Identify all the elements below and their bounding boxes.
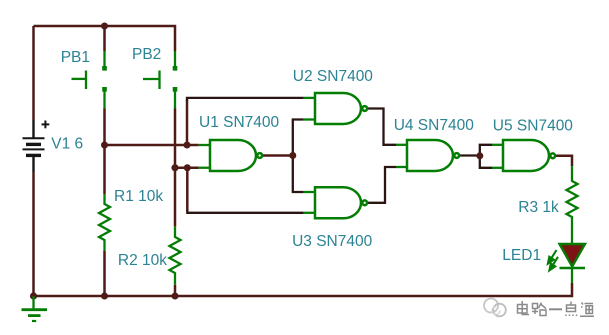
svg-text:PB1: PB1: [61, 49, 90, 66]
svg-text:U1 SN7400: U1 SN7400: [199, 114, 280, 131]
svg-text:R2 10k: R2 10k: [118, 252, 167, 269]
svg-text:R1 10k: R1 10k: [114, 188, 163, 205]
svg-text:PB2: PB2: [132, 46, 161, 63]
svg-text:U3 SN7400: U3 SN7400: [292, 233, 373, 250]
svg-text:LED1: LED1: [502, 247, 541, 264]
svg-text:V1 6: V1 6: [51, 135, 83, 152]
svg-text:U2 SN7400: U2 SN7400: [293, 68, 374, 85]
svg-text:R3 1k: R3 1k: [518, 199, 559, 216]
svg-text:U4 SN7400: U4 SN7400: [394, 117, 475, 134]
svg-text:U5 SN7400: U5 SN7400: [493, 118, 574, 135]
